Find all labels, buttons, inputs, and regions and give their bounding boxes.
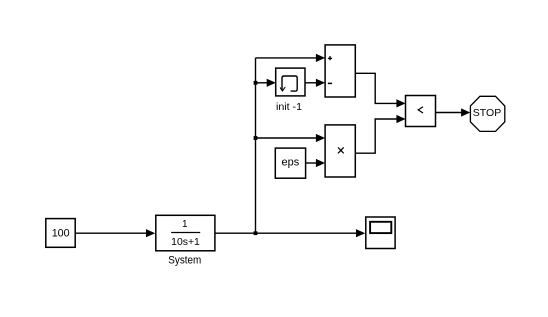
memory block init -1 [276, 68, 305, 113]
wire: branch vertical line up from main line [256, 58, 318, 233]
scope block [366, 217, 395, 249]
arrowhead into STOP [461, 108, 470, 116]
junction node at Memory branch [254, 81, 258, 85]
constant block 100 [46, 219, 75, 248]
svg-text:init -1: init -1 [276, 102, 302, 113]
constant block eps [275, 148, 305, 178]
wire: Sum output down to Relational input 1 [355, 73, 397, 103]
wire: Constant 100 to System [75, 232, 146, 234]
wire: Relational output to STOP [436, 112, 462, 114]
arrowhead into Product input 1 [316, 134, 325, 142]
arrowhead into Product input 2 [316, 159, 325, 167]
arrowhead into System [146, 229, 155, 237]
svg-text:1: 1 [182, 219, 188, 230]
svg-text:STOP: STOP [473, 108, 502, 119]
svg-text:eps: eps [282, 157, 300, 169]
arrowhead into Relational input 2 [396, 115, 405, 123]
arrowhead into Sum plus input [316, 54, 325, 62]
wire: Memory output to Sum minus input [305, 82, 317, 84]
sum block [325, 45, 355, 97]
transfer function block System 1/(10s+1) [156, 215, 215, 266]
svg-text:System: System [168, 254, 201, 266]
STOP block octagon [470, 96, 504, 131]
wire: eps output to Product input 2 [306, 162, 317, 164]
arrowhead into Sum minus [316, 79, 325, 87]
junction node on main line [254, 231, 258, 235]
junction node at Product branch [254, 136, 258, 140]
arrowhead into Relational input 1 [396, 99, 405, 107]
svg-text:100: 100 [52, 228, 70, 240]
arrowhead into Scope [356, 229, 365, 237]
arrowhead into Memory [267, 79, 276, 87]
wire: System to Scope (main line) [215, 232, 357, 234]
relational operator block < [406, 96, 436, 127]
wire: Product output up to Relational input 2 [355, 119, 397, 153]
wire: branch to Product input 1 [256, 137, 318, 139]
svg-text:10s+1: 10s+1 [171, 236, 200, 248]
product block [325, 125, 355, 177]
wire: branch to Memory input [256, 82, 268, 84]
